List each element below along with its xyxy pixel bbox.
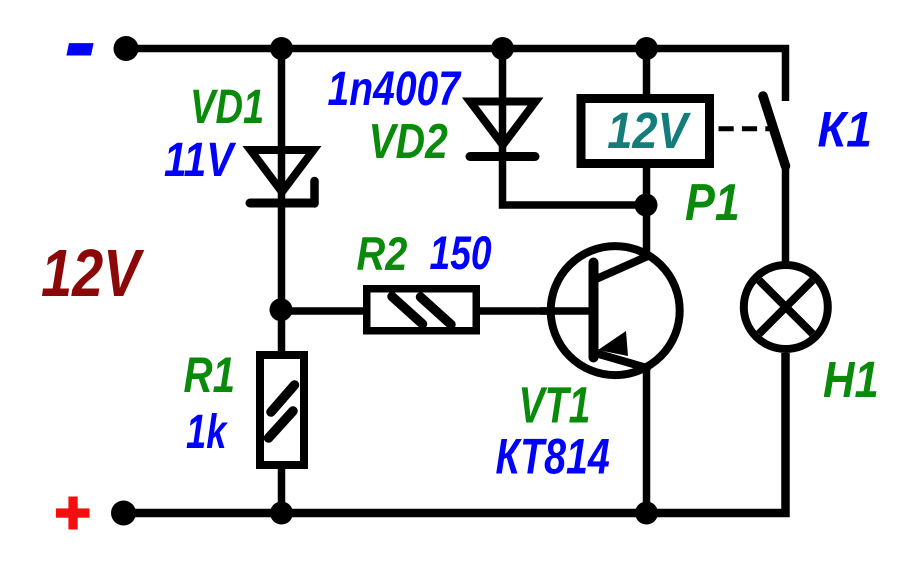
wire bottom rail with corner up to lamp H1 (123, 353, 786, 513)
svg-text:К1: К1 (818, 101, 873, 157)
node dot P1 under relay (635, 194, 658, 217)
wire relay top (643, 49, 651, 99)
resistor R2 slash 2 (421, 297, 452, 325)
node A dot (VD1/R1/R2) (270, 298, 293, 321)
lamp H1 cross stroke 2 (759, 280, 813, 334)
wire collector vertical into transistor (643, 205, 651, 259)
node dot VD1 top (270, 37, 293, 60)
transistor VT1 body circle (551, 246, 680, 375)
svg-text:12V: 12V (41, 236, 145, 311)
relay P1 actuation dashed link (719, 126, 771, 131)
lamp H1 cross stroke 1 (759, 280, 813, 334)
diode VD2 cathode bar (470, 152, 535, 161)
wire VD1 branch vertical (278, 49, 286, 310)
svg-text:150: 150 (430, 227, 492, 280)
relay P1 coil box (581, 99, 710, 164)
label minus terminal (66, 43, 93, 55)
wire base into transistor (540, 307, 596, 315)
switch K1 blade (763, 96, 786, 166)
wire VD2 branch down and right to P1 node (503, 49, 647, 206)
wire node A to R2 and base wire (282, 307, 597, 315)
resistor R1 box (260, 355, 304, 465)
label plus terminal vertical bar (68, 497, 77, 530)
label plus terminal horizontal bar (56, 508, 90, 517)
transistor VT1 emitter diagonal (597, 354, 647, 369)
svg-text:12V: 12V (607, 102, 691, 159)
wire R1 top (278, 310, 286, 355)
diode VD2 triangle (470, 102, 536, 146)
node dot VD2 top (491, 37, 514, 60)
svg-text:КТ814: КТ814 (496, 428, 610, 484)
zener diode VD1 cathode hook (310, 181, 319, 204)
transistor VT1 collector diagonal (595, 257, 647, 280)
node dot relay top (635, 37, 658, 60)
svg-text:R1: R1 (184, 347, 236, 403)
svg-text:VD1: VD1 (190, 81, 264, 134)
resistor R1 slash 1 (271, 385, 295, 412)
lamp H1 circle (744, 265, 828, 349)
svg-text:H1: H1 (823, 351, 879, 408)
resistor R1 slash 2 (269, 411, 294, 438)
svg-text:1n4007: 1n4007 (328, 63, 462, 116)
resistor R2 slash 1 (392, 297, 423, 325)
wire top rail with corner down to switch K1 (126, 49, 786, 102)
svg-text:P1: P1 (685, 174, 740, 232)
terminal dot minus (114, 36, 139, 61)
node dot R1 bottom rail (270, 502, 293, 525)
wire R1 bottom (278, 465, 286, 513)
terminal dot plus (111, 501, 136, 526)
wire switch K1 to lamp H1 (782, 164, 790, 262)
zener diode VD1 triangle (251, 150, 314, 192)
zener diode VD1 cathode bar (250, 199, 314, 208)
svg-text:R2: R2 (357, 228, 408, 281)
svg-text:11V: 11V (164, 134, 237, 187)
svg-text:1k: 1k (186, 405, 228, 459)
wire emitter vertical to bottom rail (643, 364, 651, 513)
wire relay bottom to node P1 (643, 164, 651, 205)
transistor VT1 base bar (589, 263, 599, 358)
resistor R2 box (367, 289, 477, 331)
svg-text:VD2: VD2 (369, 115, 448, 169)
node dot emitter bottom rail (635, 502, 658, 525)
svg-text:VT1: VT1 (519, 377, 591, 434)
transistor VT1 emitter arrow (PNP) (598, 331, 628, 356)
